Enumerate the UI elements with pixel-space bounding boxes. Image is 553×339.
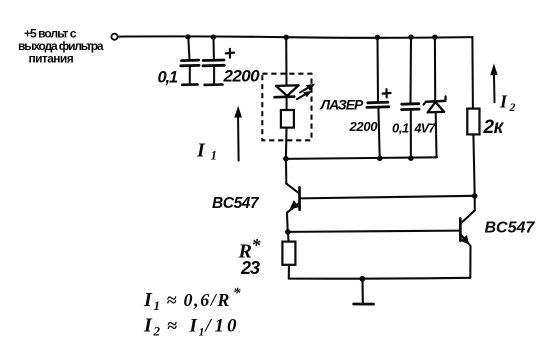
emitter arrow Q2 [460,235,469,245]
svg-text:1: 1 [199,325,205,339]
monitor box inside laser module [281,110,294,128]
junction node A3 (C4/mid-rail) [408,155,414,161]
wire: Q1 base to node B [300,196,475,199]
junction node B (R2/Q2 collector/Q1 base) [472,193,478,199]
capacitor C4 0,1 [402,38,419,158]
svg-text:2: 2 [153,324,161,339]
junction node J3 (laser branch at rail) [284,35,289,40]
svg-text:1: 1 [154,298,161,313]
junction node J2 (C2 at rail) [211,34,216,39]
emitter arrow Q1 [290,200,300,209]
svg-text:2200: 2200 [349,119,379,134]
wire: emitter node to Q2 base [288,231,460,232]
wire: rail corner down to R2 [471,37,474,108]
plus sign (C2 polarity) [226,49,235,58]
svg-text:2: 2 [509,100,516,114]
current arrow I1 [234,106,242,161]
laser module dashed box [262,74,311,141]
svg-text:0,1: 0,1 [392,121,409,136]
ground [354,279,374,304]
junction node A2 (C3/mid-rail) [377,156,383,162]
svg-text:/: / [204,316,213,337]
current arrow I2 [490,63,498,102]
laser emission arrows [297,84,315,100]
resistor R1 R* [282,232,295,279]
capacitor C3 2200 [367,38,389,158]
junction node C (Q1 emitter/R1/Q2 base) [285,229,291,235]
wire: +5V top rail [118,36,473,37]
junction node J1 (C1 at rail) [185,34,190,39]
transistor Q1 BC547 [286,159,300,232]
formula I2 = I1/10 [143,315,240,339]
svg-text:1: 1 [211,148,218,163]
junction node A1 (laser/mid-rail) [283,156,289,162]
svg-text:2200: 2200 [223,67,261,86]
svg-text:0,6/R: 0,6/R [184,290,232,310]
laser diode VD1 [275,85,299,97]
resistor R2 2k [467,109,479,135]
wire: module to node A [285,128,288,159]
transistor Q2 BC547 [460,196,475,278]
svg-text:BC547: BC547 [212,195,260,212]
svg-text:*: * [252,235,262,255]
svg-text:ЛАЗЕР: ЛАЗЕР [320,96,365,112]
supply label "+5 вольт с выхода фильтра питания" [18,26,104,65]
svg-text:I: I [196,140,206,162]
svg-text:≈: ≈ [167,316,177,336]
svg-text:2к: 2к [483,117,505,138]
svg-text:I: I [143,315,153,337]
wire: R2 to node B [473,135,474,196]
svg-text:питания: питания [29,51,74,65]
svg-text:23: 23 [240,258,260,278]
svg-text:4V7: 4V7 [414,122,437,136]
wire: laser cathode to monitor box [286,97,288,110]
junction node G (ground tap) [360,276,366,282]
capacitor C2 2200 [203,38,224,85]
svg-text:≈: ≈ [167,290,177,310]
svg-text:BC547: BC547 [485,220,536,237]
junction node J6 (zener at rail) [432,35,437,40]
plus sign (C3 polarity) [383,89,391,97]
svg-text:0,1: 0,1 [158,69,178,87]
wire: mid rail (node A) [286,157,437,159]
wire: bottom rail [289,277,471,280]
junction node J5 (C4 at rail) [408,35,413,40]
svg-text:I: I [499,92,508,112]
svg-text:I: I [143,289,153,311]
svg-text:10: 10 [215,316,240,337]
capacitor C1 0,1 [181,38,199,85]
junction node J4 (C3 at rail) [375,35,380,40]
input terminal [111,34,117,40]
formula I1 = 0,6/R* [143,286,241,314]
wire: rail to laser anode [285,38,287,86]
svg-text:*: * [233,286,241,302]
zener diode VD2 4V7 [424,38,446,158]
svg-text:I: I [189,316,198,337]
